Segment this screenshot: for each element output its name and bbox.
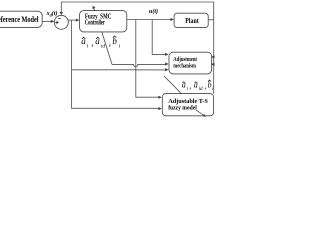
svg-text:,: ,	[109, 38, 111, 48]
wire: controller output to plant	[127, 19, 171, 21]
label: parameter set above T-S model a_i, a_id, b_i	[182, 81, 214, 93]
arrowhead: parameter arrow tip above Fuzzy SMC controller	[93, 6, 96, 10]
arrowhead: into summing junction from reference model	[51, 20, 55, 23]
arrowhead: into adjustment mechanism lower input	[165, 68, 169, 71]
arrowhead: into adjustment mechanism top input	[165, 53, 169, 56]
block: Fuzzy SMC Controller U1	[80, 11, 127, 32]
svg-text:,: ,	[204, 82, 206, 91]
wire: u(t) branch vertical down to T-S fuzzy model	[136, 20, 159, 98]
svg-text:Reference Model: Reference Model	[0, 15, 39, 24]
arrowhead: u(t) into plant	[170, 18, 174, 21]
hat over b_i (label 1)	[113, 36, 116, 38]
arrowhead: error into Fuzzy SMC controller	[76, 19, 80, 22]
hat over b_i (label 2)	[208, 80, 211, 82]
block: Adjustment mechanism	[169, 52, 212, 74]
svg-text:u(t): u(t)	[149, 8, 158, 15]
arrowhead: into T-S fuzzy model lower input	[158, 107, 162, 110]
block: Adjustable T-S fuzzy model	[162, 94, 213, 116]
svg-text:id: id	[101, 43, 106, 49]
svg-text:,: ,	[91, 38, 93, 48]
arrowhead: into adjustment mechanism middle input	[165, 63, 169, 66]
svg-text:,: ,	[189, 82, 191, 91]
svg-text:mechanism: mechanism	[173, 62, 196, 69]
arrowhead: into T-S fuzzy model upper input	[158, 96, 162, 99]
wire: parameter diagonal exit inside T-S fuzzy model box	[196, 110, 203, 115]
wire: stub from right vertical into adjustment mechanism right upper	[212, 56, 214, 58]
wire: parameter diagonal from adjustment mechanism toward T-S fuzzy model	[164, 76, 181, 93]
arrowhead: feedback into summing junction top	[60, 12, 63, 15]
summing junction	[54, 15, 68, 29]
svg-text:i: i	[87, 43, 89, 49]
svg-text:id: id	[199, 87, 203, 92]
wire: reference model to summing junction	[42, 20, 51, 22]
plus sign in summing junction	[55, 21, 58, 24]
arrowhead: into adjustment mechanism right upper	[211, 55, 214, 59]
wire: top feedback line from plant output to summing junction	[61, 2, 213, 94]
wire: parameter diagonal into Fuzzy SMC controller (lower visible segment)	[102, 32, 112, 65]
label: parameter set under controller a_i, a_id, b_i	[81, 36, 120, 49]
hat over a_id (label 1)	[96, 37, 99, 39]
arrowhead: into adjustment mechanism right lower	[211, 63, 214, 67]
wire: u(t) branch to adjustment mechanism top input	[152, 20, 165, 55]
hat over a_i (label 2)	[182, 82, 185, 84]
svg-text:Controller: Controller	[85, 20, 105, 27]
hat over a_i (label 1)	[82, 37, 85, 39]
svg-text:a: a	[95, 36, 100, 46]
wire: line A from diagonal junction to adjustment mechanism middle input, hop under vertical	[112, 64, 166, 66]
svg-text:i: i	[119, 43, 121, 49]
wire: plant output stub to right edge	[208, 19, 214, 21]
svg-text:fuzzy model: fuzzy model	[168, 104, 197, 111]
arrowhead: parameter arrow tip at T-S fuzzy model bottom right	[203, 114, 206, 117]
block: Plant	[174, 13, 208, 27]
wire: stub from right vertical into adjustment mechanism right lower	[212, 63, 214, 65]
block: Reference Model	[0, 11, 42, 27]
minus sign in summing junction	[58, 17, 61, 19]
svg-text:a: a	[81, 36, 86, 46]
wire: error line B to adjustment mechanism lower input	[72, 69, 166, 71]
svg-text:b: b	[208, 81, 212, 90]
hat over a_id (label 2)	[194, 82, 197, 84]
wire: error branch vertical down from node at x=71.6	[72, 20, 160, 108]
wire: parameter diagonal exit stub above Fuzzy SMC controller	[93, 7, 95, 11]
wire: summing junction output to controller	[68, 19, 77, 21]
svg-text:Plant: Plant	[185, 18, 199, 25]
svg-text:i: i	[187, 87, 189, 92]
svg-text:xd(t): xd(t)	[46, 10, 58, 17]
